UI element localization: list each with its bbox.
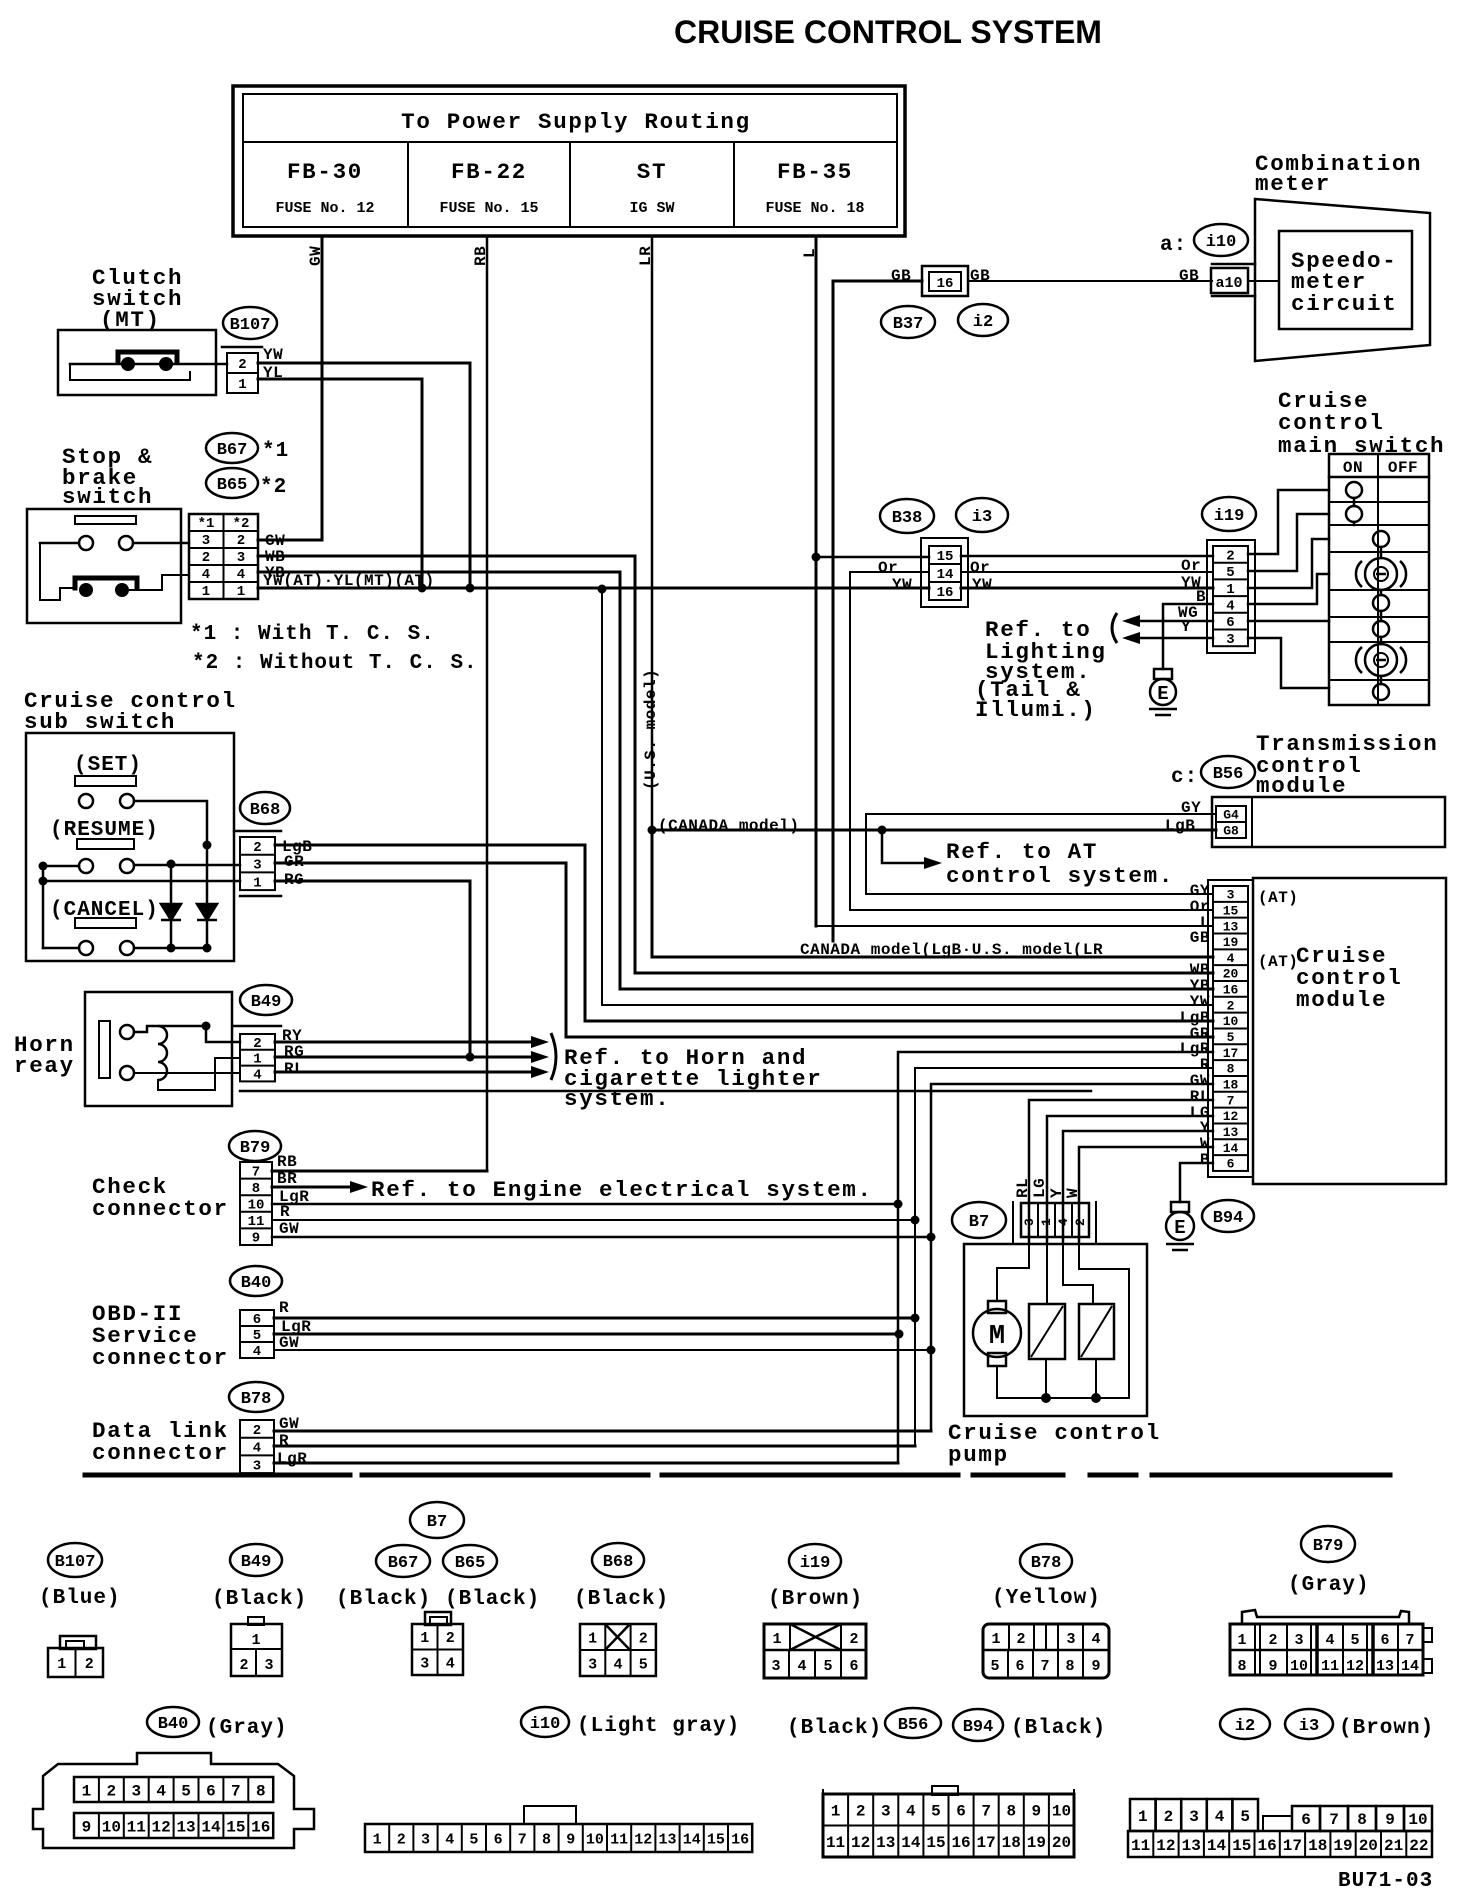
wire WG stub [1140,620,1213,623]
wire LgR check [272,1203,898,1206]
sub switch box [26,733,234,961]
wire GW stop&brake to FB-30 [258,539,322,542]
svg-text:GW: GW [307,246,325,266]
pump valve 1 [1029,1304,1065,1359]
svg-text:12: 12 [1346,1658,1364,1675]
wire RB check to FB-22 [272,1170,487,1173]
power supply box title divider [243,141,897,143]
pinout B49 tab [248,1617,264,1625]
CANCEL button [75,918,136,928]
speedometer circuit box [1279,231,1412,329]
wire WB long [258,556,1213,973]
wire Or into module [850,909,1213,911]
svg-text:5: 5 [990,1658,999,1675]
svg-text:Or: Or [1181,557,1201,575]
wire GW vertical from FB-30 [321,236,324,540]
wire RL to horn system [275,1071,531,1074]
svg-text:11: 11 [248,1214,265,1230]
junction GW obd [927,1346,936,1355]
svg-text:R: R [279,1299,289,1317]
svg-text:(AT): (AT) [1258,889,1298,907]
pinout oval B68 [592,1543,644,1577]
svg-text:16: 16 [1257,1837,1276,1855]
horn relay wire pin2 [206,1026,240,1042]
pinout oval B40 [147,1707,199,1737]
svg-text:2: 2 [239,1657,248,1674]
svg-text:7: 7 [1040,1658,1049,1675]
svg-text:7: 7 [1405,1632,1414,1649]
connector B67/B65 pin grid [189,514,258,600]
svg-text:B65: B65 [455,1554,486,1573]
svg-text:c:: c: [1171,766,1198,789]
svg-text:7: 7 [981,1803,991,1821]
svg-text:5: 5 [1227,1030,1235,1045]
svg-text:reay: reay [14,1053,75,1079]
brace horn system [551,1033,556,1080]
connector oval i2 [958,304,1008,336]
wire YW branch vertical [601,588,603,1005]
svg-text:2: 2 [639,1630,648,1647]
svg-text:L: L [801,248,819,258]
svg-text:15: 15 [707,1831,725,1848]
svg-text:B94: B94 [963,1718,994,1737]
wire i19 pin4 to switch [1248,574,1329,604]
pinout B68 cells [580,1624,656,1676]
RESUME contact left [79,859,93,873]
svg-text:(Gray): (Gray) [206,1717,288,1740]
RESUME contact right [120,859,134,873]
pinout i10 tab [524,1806,576,1824]
stop & brake wire contact-left [40,542,79,545]
SET contact right [120,794,134,808]
pinout B107 cells [48,1648,103,1677]
svg-text:8: 8 [252,1181,260,1197]
wire GY TCM to module [866,814,1216,894]
power supply box divider 2 [569,142,571,227]
svg-text:RB: RB [277,1153,297,1171]
pinout oval B78 [1020,1544,1072,1578]
svg-text:4: 4 [1215,1808,1225,1826]
junction pump bus a [1041,1393,1051,1403]
svg-text:14: 14 [1207,1837,1227,1855]
sub switch wire CANCEL row left [43,947,79,950]
svg-text:2: 2 [1226,548,1234,564]
svg-text:14: 14 [201,1818,221,1836]
svg-text:G8: G8 [1223,824,1239,839]
svg-text:B68: B68 [250,801,281,820]
arrow BR [350,1181,368,1193]
svg-text:3: 3 [1294,1632,1303,1649]
svg-text:1: 1 [251,1632,260,1649]
pinout B40 shell [33,1753,314,1848]
main switch row divider 5 [1329,616,1429,618]
diode D2 wire [206,845,209,948]
svg-text:5: 5 [639,1656,648,1673]
connector B38 pins [929,546,961,601]
svg-text:(Black): (Black) [574,1588,669,1611]
main switch contact e [1373,595,1389,611]
cruise control module pins [1213,886,1248,1172]
svg-text:15: 15 [226,1818,245,1836]
svg-text:8: 8 [542,1831,551,1848]
connector B7 pins [1021,1203,1089,1237]
power supply box divider 1 [407,142,409,227]
clutch switch contact left [121,357,135,371]
wire LR into module [652,830,1213,957]
wire YL from clutch switch [258,379,422,588]
svg-text:LR: LR [637,246,655,266]
svg-text:5: 5 [181,1782,191,1800]
svg-text:2: 2 [238,357,246,373]
svg-text:CRUISE CONTROL SYSTEM: CRUISE CONTROL SYSTEM [674,14,1102,50]
svg-text:B79: B79 [240,1139,271,1158]
svg-text:15: 15 [1232,1837,1251,1855]
clutch switch contact right [159,357,173,371]
wire GW obd [274,1349,931,1351]
svg-text:9: 9 [252,1231,260,1247]
svg-text:6: 6 [1227,1157,1235,1172]
pump wire pin4 to valve2 [1063,1244,1093,1304]
svg-text:B40: B40 [241,1274,272,1293]
diode D1 wire [170,864,173,948]
svg-text:16: 16 [951,1834,970,1852]
CANCEL contact right [120,941,134,955]
svg-text:14: 14 [1223,1141,1239,1156]
svg-text:YW: YW [892,576,912,594]
svg-text:1: 1 [237,584,245,600]
svg-text:7: 7 [518,1831,527,1848]
svg-text:10: 10 [248,1198,265,1214]
svg-text:B49: B49 [251,993,282,1012]
svg-text:10: 10 [1052,1803,1071,1821]
pinout B67/B65 cells [412,1624,463,1675]
svg-text:6: 6 [1301,1811,1311,1829]
svg-text:2: 2 [1164,1808,1174,1826]
svg-text:1: 1 [1138,1808,1148,1826]
main switch link de [1380,590,1383,595]
svg-text:connector: connector [92,1440,229,1466]
wire Or/YW mid [850,572,929,910]
svg-text:2: 2 [856,1803,866,1821]
main switch row divider 7 [1329,679,1429,681]
connector oval B38 [880,499,934,533]
svg-text:RL: RL [284,1060,304,1078]
svg-text:3: 3 [1066,1631,1075,1648]
svg-text:17: 17 [1223,1046,1239,1061]
svg-text:*1: *1 [198,516,215,532]
svg-text:(Black): (Black) [336,1588,431,1611]
stop & brake lower contact right [115,583,129,597]
svg-text:4: 4 [253,1344,261,1360]
pinout oval B79 [1301,1526,1355,1562]
svg-text:LgB: LgB [1165,817,1195,835]
svg-text:1: 1 [772,1631,781,1648]
svg-text:16: 16 [251,1818,270,1836]
wire RB vertical from FB-22 [486,236,489,1171]
stop & brake contact circle right [119,536,133,550]
transmission control module box [1212,797,1445,847]
junction sub switch left a [39,862,48,871]
svg-text:2: 2 [237,533,245,549]
svg-text:B49: B49 [241,1553,272,1572]
sub switch wire RESUME left [43,865,79,868]
svg-text:7: 7 [1227,1093,1235,1108]
pinout B40 row2 [74,1813,273,1838]
svg-text:B38: B38 [892,509,923,528]
svg-text:3: 3 [421,1831,430,1848]
svg-text:B68: B68 [603,1553,634,1572]
svg-text:connector: connector [92,1345,229,1371]
svg-text:system.: system. [564,1086,670,1112]
svg-text:B107: B107 [55,1553,96,1572]
svg-text:13: 13 [1223,919,1239,934]
main switch row divider 4 [1329,589,1429,591]
svg-text:1: 1 [991,1631,1000,1648]
horn relay box [85,992,232,1106]
svg-text:B78: B78 [241,1390,272,1409]
junction sub switch left b [39,877,48,886]
svg-text:4: 4 [237,567,245,583]
main switch row divider 2 [1329,524,1429,526]
svg-text:8: 8 [1006,1803,1016,1821]
connector B7 bracket left [1012,1202,1014,1243]
svg-text:i10: i10 [1206,233,1237,252]
svg-text:1: 1 [82,1782,92,1800]
pinout i19 cells [764,1624,866,1678]
svg-text:control system.: control system. [946,863,1174,889]
connector B79 pins [240,1162,272,1247]
wire LgB canada to TCM [652,829,1216,832]
wire GW data link [274,1430,931,1433]
stop & brake switch box [27,509,181,623]
horn relay wire top [134,1026,206,1032]
svg-text:8: 8 [1357,1811,1367,1829]
cruise control module box [1253,878,1446,1184]
wire GW bus to module [931,1084,1213,1431]
main switch column divider [1377,454,1379,705]
svg-text:1: 1 [1226,582,1234,598]
svg-text:5: 5 [1350,1632,1359,1649]
wire GB inside meter [1248,280,1279,282]
connector oval B68 [240,792,290,824]
wire YW right of B38 [961,571,1213,573]
connector B49 pins [240,1034,275,1084]
connector B49 bracket bottom [240,1090,1091,1093]
svg-text:4: 4 [446,1656,455,1673]
svg-text:W: W [1064,1188,1082,1198]
svg-text:11: 11 [127,1818,146,1836]
svg-text:18: 18 [1308,1837,1327,1855]
svg-text:1: 1 [57,1656,66,1673]
svg-text:5: 5 [253,1328,261,1344]
svg-text:6: 6 [206,1782,216,1800]
svg-text:sub switch: sub switch [24,709,176,735]
separator segment 1 [85,1473,350,1478]
svg-text:2: 2 [202,550,210,566]
svg-text:a10: a10 [1215,275,1242,292]
stop & brake top bar [75,516,136,524]
svg-text:3: 3 [420,1656,429,1673]
arrow WG [1122,615,1140,627]
svg-text:9: 9 [1091,1658,1100,1675]
svg-text:4: 4 [202,567,210,583]
SET button [75,776,136,786]
svg-text:R: R [280,1203,290,1221]
svg-text:B78: B78 [1031,1554,1062,1573]
svg-text:2: 2 [1268,1632,1277,1649]
svg-text:13: 13 [176,1818,195,1836]
wire RL module to pump [1029,1100,1213,1243]
ground E at module [1166,1202,1194,1250]
svg-text:B56: B56 [898,1716,929,1735]
connector B107 pins [227,353,258,393]
wire GW check [272,1236,931,1239]
svg-text:3: 3 [237,550,245,566]
svg-text:i3: i3 [1299,1717,1319,1736]
svg-text:1: 1 [1039,1218,1054,1226]
svg-text:9: 9 [1268,1658,1277,1675]
svg-text:15: 15 [926,1834,945,1852]
svg-text:*2: *2 [233,516,250,532]
svg-text:3: 3 [1227,888,1235,903]
svg-text:2: 2 [1016,1631,1025,1648]
svg-text:i19: i19 [1214,507,1245,526]
svg-text:IG SW: IG SW [629,200,674,217]
svg-text:11: 11 [1131,1837,1150,1855]
main switch link column [1380,547,1383,558]
wire YB long [258,572,1213,989]
wire R obd [274,1317,915,1320]
pinout B94 cells [1128,1799,1432,1857]
svg-text:13: 13 [658,1831,676,1848]
connector 16 inline [922,266,968,296]
svg-text:B7: B7 [969,1213,989,1232]
svg-text:19: 19 [1333,1837,1352,1855]
wire YW branch to module [602,1004,1213,1006]
svg-text:(SET): (SET) [74,754,142,777]
pinout B107 tab [60,1636,96,1649]
svg-text:12: 12 [1156,1837,1175,1855]
svg-text:19: 19 [1027,1834,1046,1852]
svg-text:14: 14 [937,567,954,583]
arrow RG [531,1051,549,1063]
separator segment 4 [973,1473,1063,1478]
connector B49 bracket top [234,1025,281,1028]
svg-text:4: 4 [797,1658,806,1675]
svg-text:11: 11 [610,1831,628,1848]
power supply box divider 3 [733,142,735,227]
pump motor M [973,1301,1021,1366]
TCM connector divider [1251,797,1253,847]
svg-text:11: 11 [1321,1658,1339,1675]
svg-text:7: 7 [252,1164,260,1180]
svg-text:(Yellow): (Yellow) [992,1587,1101,1610]
svg-text:10: 10 [1408,1811,1427,1829]
wire R bus to module [915,1068,1213,1446]
connector a10 bracket bottom [1212,295,1255,298]
svg-text:5: 5 [931,1803,941,1821]
junction LR canada [648,826,657,835]
svg-text:M: M [989,1322,1005,1352]
power supply box inner [243,94,897,227]
svg-text:1: 1 [588,1630,597,1647]
wire i19 pin6 to switch [1248,620,1329,623]
junction pump bus b [1091,1393,1101,1403]
svg-text:a:: a: [1160,234,1187,257]
pump wire pin2 to bus [997,1244,1129,1398]
connector B7 bracket right [1095,1202,1097,1243]
connector a10 [1211,268,1248,293]
horn relay wire pin4 [134,1072,240,1074]
CANCEL contact left [79,941,93,955]
main switch contact f [1373,621,1389,637]
svg-text:4: 4 [156,1782,166,1800]
svg-text:10: 10 [102,1818,121,1836]
junction L to Or [812,553,821,562]
junction YL/YW line b [466,584,475,593]
connector B68 bracket bottom [240,895,281,898]
junction R obd [911,1314,920,1323]
svg-text:16: 16 [731,1831,749,1848]
pinout oval B49 [230,1544,282,1576]
main switch contact b [1346,506,1362,522]
wire LgR bus to module [898,1052,1213,1463]
svg-text:YW: YW [972,576,992,594]
wire i19 pin3 to switch [1248,638,1329,688]
svg-text:B79: B79 [1313,1537,1344,1556]
main switch contact g [1356,644,1406,676]
svg-text:3: 3 [253,858,261,874]
svg-text:17: 17 [977,1834,996,1852]
pinout oval i10 [521,1707,569,1737]
svg-text:YW(AT)·YL(MT)(AT): YW(AT)·YL(MT)(AT) [263,572,435,590]
wire i19 pin2 to switch [1248,490,1329,554]
svg-text:1: 1 [202,584,210,600]
cruise control module bracket [1208,880,1253,1177]
svg-text:1: 1 [238,377,246,393]
wire L vertical from FB-35 [815,236,818,926]
svg-text:10: 10 [1290,1658,1308,1675]
horn relay wire pin1 [158,1058,240,1090]
pinout B68 X [605,1624,630,1650]
wire GR to module [275,863,1213,1037]
svg-text:2: 2 [107,1782,117,1800]
svg-text:B40: B40 [158,1715,189,1734]
svg-text:21: 21 [1384,1837,1403,1855]
connector oval i10 [1194,224,1248,256]
arrow Y [1122,632,1140,644]
wire GB from speedometer [833,281,922,941]
pinout oval i3 [1285,1709,1333,1739]
svg-text:3: 3 [771,1658,780,1675]
pinout oval i19 [789,1544,841,1578]
connector oval B37 [881,306,935,338]
svg-text:B67: B67 [217,441,248,460]
connector oval B67 [206,433,258,463]
svg-text:2: 2 [397,1831,406,1848]
sub switch left bus [42,866,45,948]
junction sub switch LgB [203,841,212,850]
svg-text:2: 2 [446,1630,455,1647]
svg-text:4: 4 [253,1441,261,1457]
connector oval B94 [1202,1200,1254,1232]
stop & brake internal wire b [130,575,189,590]
pinout oval B107 [48,1543,102,1577]
svg-text:B37: B37 [893,315,924,334]
wire Y stub [1140,637,1213,640]
svg-text:B65: B65 [217,476,248,495]
svg-text:LG: LG [1031,1178,1049,1198]
